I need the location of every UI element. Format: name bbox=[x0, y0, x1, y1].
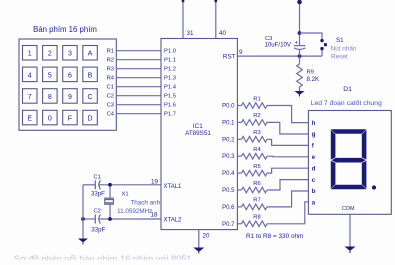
svg-text:Thạch anh: Thạch anh bbox=[130, 199, 160, 206]
svg-text:d: d bbox=[312, 166, 316, 172]
svg-text:11.0592MHz: 11.0592MHz bbox=[117, 208, 152, 215]
svg-text:10uF/10V: 10uF/10V bbox=[265, 42, 292, 49]
svg-text:R2: R2 bbox=[107, 58, 114, 64]
svg-text:20: 20 bbox=[203, 233, 211, 240]
svg-text:AT89S51: AT89S51 bbox=[185, 130, 211, 137]
svg-text:Led 7 đoạn catốt chung: Led 7 đoạn catốt chung bbox=[311, 98, 382, 107]
svg-text:P0.0: P0.0 bbox=[222, 104, 235, 110]
svg-text:1: 1 bbox=[28, 51, 32, 58]
svg-text:P0.7: P0.7 bbox=[222, 222, 235, 228]
svg-text:8: 8 bbox=[48, 94, 52, 101]
svg-text:P1.4: P1.4 bbox=[164, 85, 177, 91]
svg-text:R2: R2 bbox=[253, 113, 260, 119]
svg-text:P1.1: P1.1 bbox=[164, 58, 176, 64]
svg-text:COM: COM bbox=[342, 206, 355, 212]
svg-text:Reset: Reset bbox=[331, 53, 348, 60]
svg-text:R1: R1 bbox=[253, 96, 260, 102]
svg-text:R8: R8 bbox=[253, 215, 260, 221]
svg-text:R4: R4 bbox=[253, 147, 261, 153]
svg-text:B: B bbox=[88, 72, 93, 79]
svg-text:C1: C1 bbox=[107, 85, 114, 91]
svg-text:R4: R4 bbox=[107, 76, 115, 82]
svg-text:C4: C4 bbox=[107, 112, 115, 118]
svg-text:R1: R1 bbox=[107, 49, 114, 55]
svg-text:S1: S1 bbox=[336, 37, 344, 44]
svg-text:g: g bbox=[312, 132, 316, 138]
svg-text:40: 40 bbox=[219, 30, 227, 37]
svg-text:3: 3 bbox=[68, 51, 72, 58]
svg-text:7: 7 bbox=[28, 94, 32, 101]
svg-text:R6: R6 bbox=[253, 181, 260, 187]
svg-text:P0.2: P0.2 bbox=[222, 137, 235, 143]
svg-text:XTAL1: XTAL1 bbox=[164, 184, 183, 190]
svg-text:31: 31 bbox=[187, 30, 195, 37]
svg-text:P0.1: P0.1 bbox=[222, 120, 235, 126]
svg-text:R7: R7 bbox=[253, 198, 260, 204]
svg-text:P1.6: P1.6 bbox=[164, 103, 176, 109]
svg-text:R3: R3 bbox=[253, 130, 260, 136]
svg-text:h: h bbox=[312, 121, 316, 127]
svg-text:b: b bbox=[312, 189, 316, 195]
svg-text:P1.0: P1.0 bbox=[164, 49, 176, 55]
svg-text:F: F bbox=[68, 116, 72, 123]
svg-text:P0.5: P0.5 bbox=[222, 188, 235, 194]
svg-text:9: 9 bbox=[239, 49, 243, 56]
svg-text:R9: R9 bbox=[307, 70, 314, 76]
svg-text:8.2K: 8.2K bbox=[307, 76, 320, 83]
svg-text:A: A bbox=[88, 51, 93, 58]
svg-text:2: 2 bbox=[48, 51, 52, 58]
svg-text:P1.2: P1.2 bbox=[164, 67, 176, 73]
svg-text:5: 5 bbox=[48, 72, 52, 79]
svg-text:P0.6: P0.6 bbox=[222, 205, 235, 211]
svg-text:Bàn phím 16 phím: Bàn phím 16 phím bbox=[33, 25, 97, 34]
svg-text:P1.3: P1.3 bbox=[164, 76, 176, 82]
svg-text:33pF: 33pF bbox=[91, 191, 105, 198]
svg-text:D1: D1 bbox=[343, 86, 352, 93]
svg-text:C1: C1 bbox=[94, 174, 101, 180]
svg-text:P1.7: P1.7 bbox=[164, 112, 176, 118]
svg-text:+: + bbox=[295, 41, 299, 47]
svg-text:R5: R5 bbox=[253, 164, 260, 170]
svg-text:RST: RST bbox=[223, 53, 236, 60]
svg-text:C2: C2 bbox=[94, 208, 101, 214]
svg-text:9: 9 bbox=[68, 94, 72, 101]
svg-text:C3: C3 bbox=[107, 103, 114, 109]
svg-text:33pF: 33pF bbox=[91, 226, 105, 233]
svg-text:C2: C2 bbox=[107, 94, 114, 100]
svg-text:P0.4: P0.4 bbox=[222, 171, 235, 177]
svg-text:R1 to R8 = 330 ohm: R1 to R8 = 330 ohm bbox=[246, 233, 303, 240]
svg-text:Nút nhấn: Nút nhấn bbox=[331, 44, 357, 53]
svg-text:P0.3: P0.3 bbox=[222, 154, 235, 160]
svg-text:R3: R3 bbox=[107, 67, 114, 73]
svg-text:C: C bbox=[87, 94, 92, 101]
svg-text:6: 6 bbox=[68, 72, 72, 79]
svg-text:4: 4 bbox=[28, 72, 32, 79]
svg-text:X1: X1 bbox=[122, 192, 129, 198]
svg-text:P1.5: P1.5 bbox=[164, 94, 176, 100]
svg-text:D: D bbox=[87, 116, 92, 123]
svg-text:0: 0 bbox=[48, 116, 52, 123]
svg-text:Sơ đồ ghép nối bàn phím 16 phí: Sơ đồ ghép nối bàn phím 16 phím với 8051 bbox=[14, 254, 192, 260]
svg-text:XTAL2: XTAL2 bbox=[164, 218, 183, 224]
svg-text:IC1: IC1 bbox=[193, 123, 203, 130]
svg-text:E: E bbox=[27, 116, 32, 123]
